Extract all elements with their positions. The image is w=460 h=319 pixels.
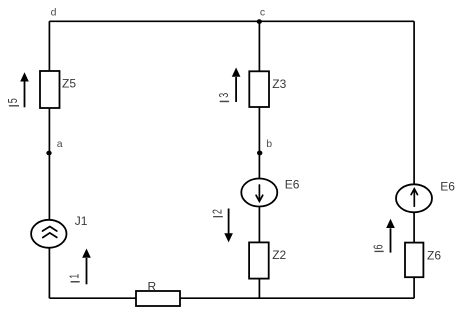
svg-text:2: 2 [211, 209, 225, 214]
svg-text:E6: E6 [440, 179, 455, 193]
svg-text:5: 5 [7, 98, 21, 103]
svg-text:J1: J1 [75, 214, 88, 228]
svg-text:6: 6 [372, 244, 386, 249]
svg-text:3: 3 [217, 93, 231, 98]
svg-text:Z6: Z6 [427, 248, 441, 262]
svg-text:R: R [148, 279, 157, 293]
svg-text:d: d [51, 6, 57, 18]
svg-text:Z2: Z2 [272, 248, 286, 262]
svg-text:c: c [260, 7, 265, 19]
svg-text:Z3: Z3 [272, 77, 286, 91]
svg-text:a: a [57, 138, 63, 150]
svg-text:E6: E6 [285, 178, 300, 192]
svg-text:1: 1 [68, 274, 82, 279]
svg-text:Z5: Z5 [62, 77, 76, 91]
svg-text:b: b [266, 138, 272, 150]
